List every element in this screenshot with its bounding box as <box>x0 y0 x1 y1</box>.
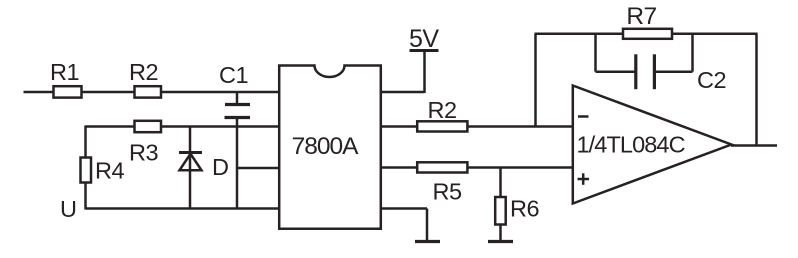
resistor R5 <box>417 162 467 204</box>
wire R3 to IC pin2 left (row2) <box>160 125 279 128</box>
svg-text:1/4TL084C: 1/4TL084C <box>577 132 686 158</box>
resistor R7 <box>623 3 672 39</box>
wire feedback left vertical (node inverting input to R7/C2) <box>534 34 537 128</box>
wire left vertical above R4 <box>84 126 87 159</box>
ground (R6) <box>488 240 513 243</box>
wire left vertical below R4 <box>84 183 87 210</box>
ground (IC pin4) <box>415 240 440 243</box>
svg-text:R2: R2 <box>427 97 456 123</box>
svg-text:C1: C1 <box>219 62 248 88</box>
wire op-amp output <box>731 144 777 147</box>
resistor R2 <box>129 59 161 98</box>
5V supply terminal <box>409 25 439 93</box>
op-amp/regulator IC U1 7800A <box>279 66 381 229</box>
resistor R2 (second) <box>417 97 467 132</box>
wire input stub left of R1 (row1) <box>24 91 55 94</box>
wire IC pin3 right to R5 (row3) <box>380 166 418 169</box>
wire row2 left vertical to R3 <box>86 125 136 128</box>
wire IC pin4 right (row4) <box>380 207 427 210</box>
resistor R6 <box>495 168 539 242</box>
wire feedback top left segment to R7 <box>535 33 624 36</box>
resistor R4 <box>81 158 125 184</box>
wire IC pin1 right to 5V tap (row1) <box>380 91 425 94</box>
wire R2b to op-amp inverting input (row2) <box>467 125 574 128</box>
svg-text:U: U <box>60 196 76 222</box>
op-amp U2 1/4TL084C <box>573 86 732 204</box>
svg-text:7800A: 7800A <box>292 133 360 160</box>
svg-text:R7: R7 <box>626 3 656 30</box>
svg-text:R3: R3 <box>129 140 158 166</box>
diode D <box>179 127 229 209</box>
svg-text:R5: R5 <box>432 179 461 205</box>
wire C1 bottom plate down through row2 to row4 <box>236 118 239 209</box>
wire R1 to R2 (row1) <box>81 91 135 94</box>
wire R2 to IC pin1 left (row1, C1 tap at x=237) <box>160 91 279 94</box>
wire row4 bottom (U line) <box>86 207 280 210</box>
svg-text:C2: C2 <box>697 67 726 93</box>
wire R7 to feedback right vertical <box>672 33 758 36</box>
svg-text:R2: R2 <box>129 59 158 85</box>
resistor R1 <box>50 59 82 98</box>
resistor R3 <box>129 121 161 166</box>
wire R5 to op-amp non-inverting input (row3) <box>467 166 574 169</box>
wire down to ground from pin4 <box>426 209 429 242</box>
svg-text:D: D <box>212 154 229 180</box>
svg-text:R1: R1 <box>50 59 79 85</box>
svg-text:R6: R6 <box>510 196 539 222</box>
wire feedback right vertical down to output node <box>755 34 758 146</box>
capacitor C1 <box>219 62 250 118</box>
wire IC pin3 left (row3) <box>236 167 279 170</box>
svg-text:R4: R4 <box>95 158 124 184</box>
capacitor C2 (parallel with R7) <box>596 34 727 93</box>
svg-text:5V: 5V <box>409 25 439 53</box>
wire IC pin2 right to R2b (row2) <box>380 125 418 128</box>
